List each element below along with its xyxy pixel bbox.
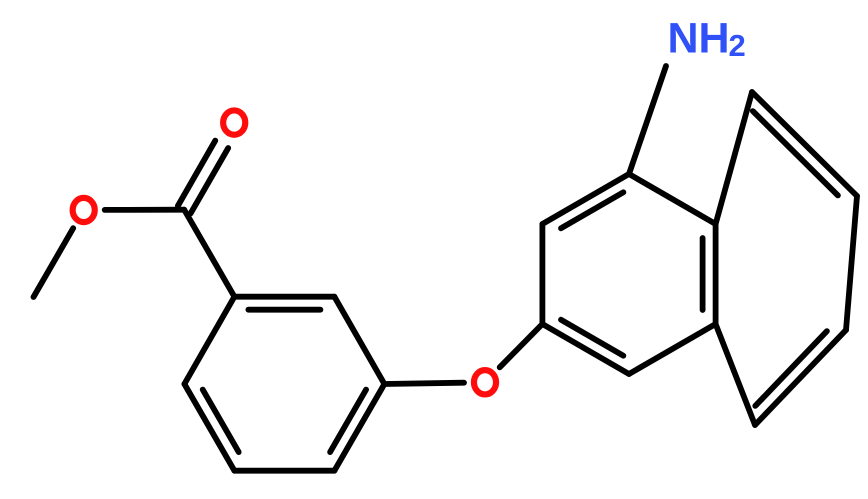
node O2 ester oxygen atom label: [73, 198, 95, 222]
wire benzene ring 1 edge C4-C5: [234, 468, 334, 474]
wire bond O2-C7 (ester oxygen to carbonyl carbon): [105, 207, 185, 213]
wire fused ring 3 edge C9-C14: [716, 92, 752, 224]
double bond C7=O1 line 1: [191, 148, 229, 213]
svg-text:NH: NH: [668, 14, 730, 62]
wire fused ring 3 edge C16-C17: [755, 330, 846, 425]
aromatic inner line ring 2 edge C9-C10: [700, 238, 706, 310]
wire bond C7-C1 (carbonyl to ring 1): [184, 210, 234, 297]
double bond C7=O1 line 2: [178, 141, 216, 206]
node O3 ether oxygen atom label: [474, 370, 496, 394]
aromatic inner line ring 2 edge C11-C12: [561, 320, 623, 356]
wire bond C8-N (amine bond): [629, 66, 666, 174]
wire bond C3-O3 (ring 1 to ether oxygen): [384, 383, 464, 384]
wire benzene ring 2 edge C11-C13: [540, 224, 546, 324]
wire benzene ring 1 edge C5-C6: [184, 384, 234, 471]
wire fused ring 3 edge C15-C16: [846, 196, 857, 330]
wire benzene ring 1 edge C1-C2: [234, 294, 334, 300]
wire bond CH3-O2 (methyl ester methyl): [34, 228, 74, 297]
wire benzene ring 2 edge C13-C8: [542, 174, 629, 224]
wire benzene ring 2 edge C8-C9: [629, 174, 716, 224]
wire benzene ring 2 edge C10-C12: [629, 324, 716, 374]
aromatic inner line ring 1 edge C5-C6: [203, 390, 239, 453]
wire bond O3-C11 (ether oxygen to ring 2): [500, 324, 543, 367]
aromatic inner line ring 2 edge C8-C13: [561, 192, 623, 228]
wire benzene ring 1 edge C6-C1: [184, 297, 234, 384]
aromatic inner line ring 1 edge C3-C4: [330, 390, 366, 453]
wire fused ring 3 edge C14-C15: [752, 92, 857, 196]
wire fused ring 3 edge C17-C10: [716, 324, 755, 425]
wire benzene ring 1 edge C2-C3: [334, 297, 384, 384]
aromatic inner line ring 3 edge C14-C15: [753, 111, 838, 195]
svg-text:2: 2: [729, 28, 746, 63]
node O1 carbonyl oxygen atom label: [223, 110, 245, 134]
aromatic inner line ring 3 edge C16-C17: [755, 331, 827, 406]
wire benzene ring 2 edge C12-C11: [542, 324, 629, 374]
wire benzene ring 1 edge C3-C4: [334, 384, 384, 471]
aromatic inner line ring 1 edge C1-C2: [248, 307, 320, 313]
wire benzene ring 2 edge C9-C10: [713, 224, 719, 324]
